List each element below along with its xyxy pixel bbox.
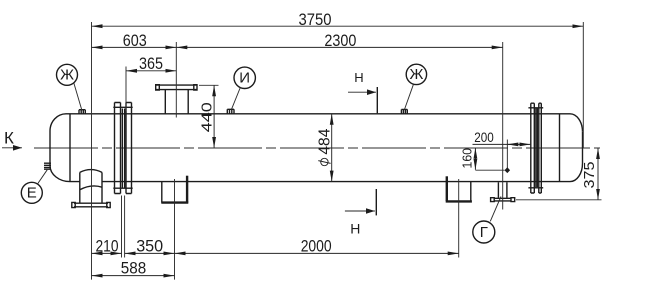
left head weld line xyxy=(69,114,71,182)
svg-text:365: 365 xyxy=(139,55,163,73)
svg-text:484: 484 xyxy=(317,128,334,154)
girth flange left (channel/shell joint) xyxy=(113,103,132,194)
dimension 365 xyxy=(126,55,176,73)
svg-text:2300: 2300 xyxy=(324,32,356,50)
fitting Zh left (small coupling on head top) xyxy=(79,110,85,114)
nozzle G (bottom right) xyxy=(491,182,515,201)
section mark H top xyxy=(348,70,377,113)
saddle right centerline xyxy=(458,179,460,258)
svg-text:160: 160 xyxy=(460,148,474,169)
dimension 200 xyxy=(473,129,531,145)
wire: shell top line xyxy=(66,113,570,115)
dimension 375 (vertical) xyxy=(581,148,598,200)
svg-text:2000: 2000 xyxy=(301,238,332,256)
dimension 210 xyxy=(92,237,122,255)
svg-text:Е: Е xyxy=(27,185,37,202)
top nozzle neck xyxy=(165,90,188,114)
svg-text:350: 350 xyxy=(136,237,163,255)
extension line right head tip xyxy=(582,22,584,148)
svg-text:Г: Г xyxy=(480,224,488,241)
label circle E xyxy=(21,170,47,204)
right head xyxy=(570,114,583,182)
svg-text:Ж: Ж xyxy=(409,66,423,83)
svg-text:440: 440 xyxy=(200,102,216,132)
wire: shell bottom line xyxy=(70,181,570,183)
left head xyxy=(50,114,70,182)
extension line left (nozzle axis, dim ref) xyxy=(91,22,93,280)
label circle Zh left xyxy=(57,64,82,110)
label circle I xyxy=(232,67,256,109)
svg-text:375: 375 xyxy=(581,162,598,189)
top nozzle (manway) flange xyxy=(156,85,197,90)
extension line 440 (flange top level) xyxy=(199,84,219,86)
svg-text:И: И xyxy=(239,70,250,87)
label circle G xyxy=(473,197,501,244)
extension line 375 bottom (nozzle flange level) xyxy=(516,199,602,201)
dimension 3750 xyxy=(92,11,584,29)
saddle support right xyxy=(446,176,472,201)
dimension 2300 xyxy=(176,32,502,50)
bottom-left nozzle xyxy=(72,170,110,208)
top nozzle centerline xyxy=(175,42,177,118)
svg-text:588: 588 xyxy=(121,260,146,278)
dimension 350 xyxy=(125,237,175,255)
centerline (vessel axis) xyxy=(34,147,600,149)
dimension 588 xyxy=(92,260,175,278)
svg-text:К: К xyxy=(4,129,14,148)
K view arrow xyxy=(2,129,22,148)
connector 160 to point xyxy=(475,169,504,171)
label circle Zh right xyxy=(405,64,427,109)
svg-text:210: 210 xyxy=(96,237,119,255)
svg-text:Н: Н xyxy=(354,70,363,85)
svg-text:Ж: Ж xyxy=(60,67,74,84)
saddle left centerline xyxy=(174,179,176,280)
dimension 160 (vertical) xyxy=(460,148,475,170)
fitting I (small coupling on shell top) xyxy=(227,109,234,114)
svg-text:603: 603 xyxy=(123,32,147,50)
svg-text:3750: 3750 xyxy=(299,11,332,29)
dimension phi484 (vertical) xyxy=(317,114,334,182)
dimension 603 xyxy=(92,32,177,50)
reference point diamond xyxy=(505,167,511,173)
extension lines flange gasket (bottom) xyxy=(122,196,125,258)
svg-text:Н: Н xyxy=(350,220,360,236)
extension line 365 left xyxy=(125,67,127,112)
nozzle G centerline xyxy=(502,42,504,210)
extension line 200 (point ref) xyxy=(506,140,508,171)
svg-text:200: 200 xyxy=(474,129,494,145)
saddle support left xyxy=(161,176,188,203)
right head weld line xyxy=(559,114,561,182)
dimension 440 (vertical) xyxy=(200,85,216,148)
girth flange right xyxy=(528,103,543,193)
fitting Zh right (small coupling on shell top) xyxy=(401,109,407,113)
fitting E (small coupling on head left edge) xyxy=(44,163,51,169)
dimension 2000 xyxy=(175,238,459,256)
section mark H bottom xyxy=(345,189,376,236)
